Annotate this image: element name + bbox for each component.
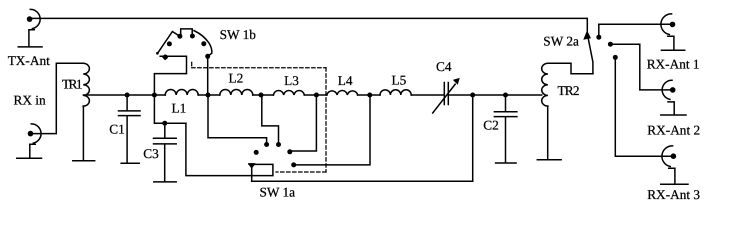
wire bus C2 to TR2 <box>506 94 542 96</box>
wire TR2 top to SW2a pivot <box>548 63 593 74</box>
svg-text:RX in: RX in <box>14 93 46 108</box>
transformer TR1 <box>83 63 89 160</box>
node output junction <box>470 93 475 98</box>
svg-text:RX-Ant 1: RX-Ant 1 <box>647 57 700 72</box>
contact chain left diagonal <box>157 32 180 54</box>
contact C SW1a <box>276 142 281 147</box>
node L4-L5 junction <box>367 93 372 98</box>
svg-text:C1: C1 <box>109 122 125 137</box>
node C1 bus junction <box>125 93 130 98</box>
svg-text:SW 1a: SW 1a <box>260 185 296 200</box>
svg-text:L5: L5 <box>392 73 407 88</box>
connector J4 RX-Ant 2 <box>661 80 686 115</box>
svg-text:TR2: TR2 <box>558 83 580 98</box>
svg-text:RX-Ant 2: RX-Ant 2 <box>647 123 700 138</box>
wire contact to RX-Ant 2 <box>610 44 671 90</box>
wire bottom rail SW1a to output node <box>252 180 473 182</box>
wire main bus TR1 tap to C1 <box>83 94 127 96</box>
node L2-L3 junction <box>259 93 264 98</box>
svg-text:RX-Ant 3: RX-Ant 3 <box>647 187 700 202</box>
wire contact to RX-Ant 1 <box>599 24 672 37</box>
node SW2a contact RX1 <box>596 35 601 40</box>
ground C1 <box>121 162 139 164</box>
contact E SW1a <box>291 162 296 167</box>
inductor L5 <box>380 90 411 95</box>
wire bus L3 to L4 <box>304 94 327 96</box>
wire contact B to L1-L2 node <box>208 95 267 145</box>
contact dots SW1b <box>163 55 168 60</box>
wire bus C4 to C2 <box>448 94 505 96</box>
node L1-L2 junction <box>206 93 211 98</box>
svg-text:L4: L4 <box>338 73 353 88</box>
wire bus L1 to L2 <box>198 94 220 96</box>
wire contact D to L3-L4 node <box>290 95 317 151</box>
contact D SW1a <box>287 149 292 154</box>
ground TR1 <box>73 160 95 162</box>
svg-text:L3: L3 <box>284 73 299 88</box>
svg-text:SW 1b: SW 1b <box>220 27 257 42</box>
wire C3 junction to SW1a box <box>186 123 273 175</box>
wire bus L4 to L5 <box>358 94 380 96</box>
wire bus L5 to C4 <box>411 94 444 96</box>
capacitor C2 <box>494 95 517 163</box>
wire bus C1 to SW1b drop <box>127 94 154 96</box>
wire bus to L1 <box>154 94 165 96</box>
svg-text:C4: C4 <box>436 59 452 74</box>
switch SW 1b rotary <box>154 29 211 95</box>
contact chain bridge <box>181 29 193 36</box>
contact A SW1a <box>254 150 259 155</box>
wire SW1b contact6 down to bus <box>207 56 209 95</box>
wire SW1b common below bus to C3 junction <box>154 95 186 123</box>
node L3-L4 junction <box>314 93 319 98</box>
wire RX in to TR1 top <box>33 63 83 133</box>
inductor L3 <box>273 91 304 95</box>
capacitor C1 <box>119 95 141 163</box>
wire bus L2 to L3 <box>253 94 274 96</box>
inductor L2 <box>220 90 253 96</box>
wire contact C to L2-L3 node <box>262 95 279 145</box>
svg-text:TR1: TR1 <box>62 77 83 92</box>
ground C2 <box>496 162 516 164</box>
svg-text:L2: L2 <box>229 71 244 86</box>
connector J2 RX in <box>17 124 42 158</box>
inductor L4 <box>327 91 358 95</box>
wire contact to RX-Ant 3 <box>615 57 672 156</box>
wire output node down to bottom rail <box>472 95 474 181</box>
svg-text:C3: C3 <box>143 146 159 161</box>
contact chain right arc <box>194 31 212 57</box>
variable capacitor C4 <box>433 79 459 113</box>
wire contact E to L4-L5 node <box>294 95 370 165</box>
capacitor C3 <box>154 123 177 181</box>
node SW2a contact RX3 <box>613 55 618 60</box>
svg-text:SW 2a: SW 2a <box>543 33 579 48</box>
connector J5 RX-Ant 3 <box>661 146 688 184</box>
connector J1 TX-Ant <box>18 9 42 47</box>
switch SW 1a wiper arrow <box>249 164 255 181</box>
node SW2a contact RX2 <box>608 42 613 47</box>
connector J3 RX-Ant 1 <box>661 14 685 50</box>
inductor L1 <box>165 90 198 96</box>
transformer TR2 <box>542 63 548 159</box>
svg-text:L1: L1 <box>172 101 187 116</box>
ground TR2 <box>537 159 561 161</box>
contact B SW1a <box>264 142 269 147</box>
node C2 junction <box>503 93 508 98</box>
switch SW 2a wiper <box>584 31 593 74</box>
node SW1b common junction <box>152 93 157 98</box>
dashed enclosure box <box>192 62 326 172</box>
svg-text:C2: C2 <box>483 117 499 132</box>
svg-text:TX-Ant: TX-Ant <box>8 53 50 68</box>
node C3 junction <box>162 121 167 126</box>
ground C3 <box>154 181 176 183</box>
wiper arm SW1b <box>154 56 186 95</box>
wire TX-Ant top bus <box>30 18 587 31</box>
